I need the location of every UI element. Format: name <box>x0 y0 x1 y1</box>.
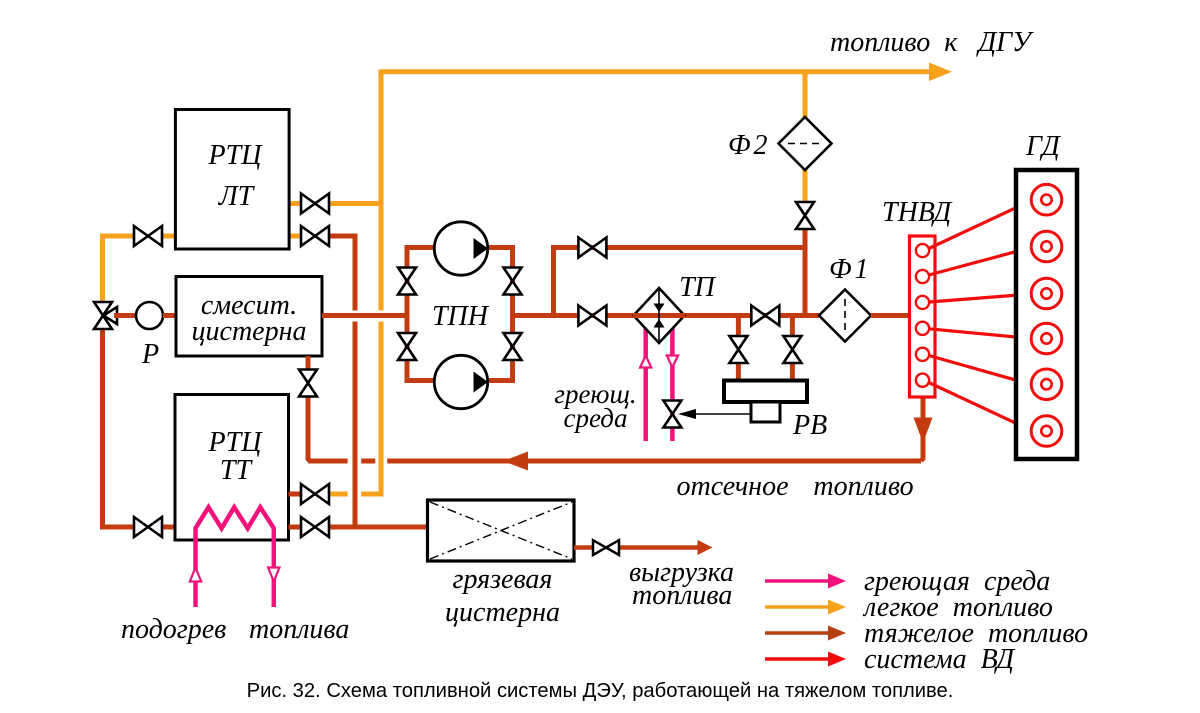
valve RTC TT left <box>134 517 162 537</box>
valve TPN upper-left <box>398 268 416 295</box>
wire: main line TPN to filter F1 <box>513 313 820 318</box>
control arrow from RV to pink valve <box>678 409 751 419</box>
pump top (circle with triangle) <box>434 222 488 275</box>
coil outlet arrow (down, open) <box>268 568 279 582</box>
gauge P (circle) <box>136 302 163 329</box>
valve below mixing tank <box>299 370 317 397</box>
svg-text:РВ: РВ <box>792 410 827 441</box>
wire: brick stub 3-way valve to gauge P <box>114 313 137 318</box>
TNVD outlet circles <box>916 244 929 387</box>
wire: RTC TT lower-right line to sludge tank <box>289 525 429 530</box>
valve RTC TT upper-right <box>301 484 329 504</box>
svg-text:ГД: ГД <box>1025 131 1062 162</box>
legend arrow: легкое топливо <box>765 600 846 615</box>
valve TPN upper-right <box>504 268 522 295</box>
valve on sludge outlet <box>593 540 619 555</box>
svg-text:система ВД: система ВД <box>864 644 1016 675</box>
svg-text:топлива: топлива <box>632 580 732 611</box>
wire: RTC LT left orange line with corner down to 3-way valve <box>103 236 176 302</box>
svg-text:ЛТ: ЛТ <box>218 181 256 212</box>
wire: bypass line y=247.5 (brick) <box>554 245 806 250</box>
tank РТЦ ТТ <box>175 395 289 541</box>
wire: orange drop from header to filter F2 <box>803 72 808 118</box>
wire: main line through TP diamond <box>633 313 685 318</box>
wire: left brick riser x=102.5 from 3-way valve down to RTC TT valve <box>103 329 176 527</box>
svg-text:топлива: топлива <box>249 614 349 645</box>
valve on main line between RV stubs <box>751 306 779 326</box>
svg-text:ТНВД: ТНВД <box>882 197 953 228</box>
tank РТЦ ЛТ <box>175 110 289 250</box>
valve on bypass line <box>578 238 606 258</box>
pump unit ТПН: left vertical <box>407 245 434 383</box>
valve on main line before TP <box>578 306 606 326</box>
heater TP internal arrows <box>654 290 665 341</box>
filter F2 (diamond with dashed line) <box>779 117 832 170</box>
svg-text:Рис. 32. Схема топливной систе: Рис. 32. Схема топливной системы ДЭУ, ра… <box>247 680 954 702</box>
valve on pink outlet line <box>663 401 681 428</box>
wire: orange segment filter F2 to valve <box>803 169 808 203</box>
legend arrow: тяжелое топливо <box>765 626 846 641</box>
valve on RV right stub <box>783 336 801 363</box>
wire: main line F1 to TNVD <box>871 313 911 318</box>
heating coil in RTC TT (pink) <box>196 507 274 607</box>
svg-text:РТЦ: РТЦ <box>208 140 264 171</box>
valve RTC TT lower-right <box>301 517 329 537</box>
sludge tank cross lines <box>430 502 572 559</box>
valve on RTC LT left line <box>134 226 162 246</box>
wire: light fuel header to DGU (orange) <box>381 63 952 82</box>
svg-text:грязевая: грязевая <box>453 564 553 595</box>
wire: RTC LT top-right orange line to riser <box>289 201 381 206</box>
sludge tank грязевая цистерна <box>428 500 575 561</box>
wire: orange riser x=381 from header down to RTC TT valve <box>329 70 381 495</box>
heater ТП (diamond) <box>634 288 685 343</box>
valve TPN lower-left <box>398 333 416 360</box>
svg-text:Р: Р <box>141 339 159 370</box>
coil inlet arrow (up, open) <box>190 568 201 582</box>
svg-text:топливо: топливо <box>813 471 913 502</box>
wire: cut-off fuel drop below TNVD with down arrow <box>914 397 933 461</box>
valve on RTC LT top-right line <box>301 194 329 214</box>
regulator РВ lower block <box>751 402 780 422</box>
wire: heavy fuel drop from valve to main line (brick) <box>803 228 808 318</box>
injection pump ТНВД (red box) <box>910 236 936 397</box>
svg-text:РТЦ: РТЦ <box>208 427 264 458</box>
wire: RTC LT lower-right stub (orange) <box>289 234 301 239</box>
regulator РВ (box) <box>724 381 807 403</box>
pump bottom (circle with triangle) <box>434 355 488 408</box>
svg-text:Ф1: Ф1 <box>829 254 872 285</box>
valve on RTC LT lower-right line <box>301 226 329 246</box>
pump unit ТПН: right vertical <box>488 245 513 383</box>
svg-text:топливо к ДГУ: топливо к ДГУ <box>830 27 1034 58</box>
wire: cut-off fuel return line y=461 with left arrow <box>308 452 921 471</box>
HP fuel lines TNVD to GD <box>929 201 1032 431</box>
svg-text:цистерна: цистерна <box>445 597 560 628</box>
filter Ф1 (diamond with dashed line) <box>819 290 871 342</box>
wire: stub down to RV right <box>790 318 795 382</box>
wire: sludge tank outlet with valve and arrow <box>574 540 713 555</box>
svg-text:Ф2: Ф2 <box>728 130 771 161</box>
3-way valve at mixing tank inlet <box>94 302 117 329</box>
svg-text:ТПН: ТПН <box>432 301 490 332</box>
svg-text:среда: среда <box>564 403 628 433</box>
GD cylinder double circles <box>1031 184 1062 446</box>
wire: bypass left vertical to main line <box>551 245 556 316</box>
main engine ГД (black box) <box>1016 170 1077 459</box>
wire: main heavy fuel line from mixing tank to TPN <box>322 313 409 318</box>
svg-text:отсечное: отсечное <box>676 471 788 502</box>
wire: pink heating inlet under TP (up arrow) <box>640 327 651 441</box>
wire: stub down to RV left <box>736 318 741 382</box>
valve on RV left stub <box>729 336 747 363</box>
wire: heavy fuel riser x=355 from RTC LT valve down to sludge tank line <box>329 236 355 529</box>
valve below F2 <box>796 202 814 229</box>
wire: RTC TT upper-right valve line (brick stub + orange to riser) <box>289 492 302 497</box>
tank смесит. цистерна <box>176 277 322 357</box>
svg-text:подогрев: подогрев <box>121 614 226 645</box>
legend arrow: система ВД <box>765 652 846 667</box>
svg-text:цистерна: цистерна <box>192 316 307 347</box>
svg-text:ТТ: ТТ <box>220 455 254 486</box>
wire: gauge to mixing tank <box>163 313 177 318</box>
legend arrow: греющая среда <box>765 574 846 589</box>
wire: return drop below mixing tank to cut-off line <box>308 356 310 461</box>
svg-text:ТП: ТП <box>679 272 717 303</box>
valve TPN lower-right <box>504 333 522 360</box>
wire: pink heating outlet under TP (down arrow) <box>667 327 678 441</box>
